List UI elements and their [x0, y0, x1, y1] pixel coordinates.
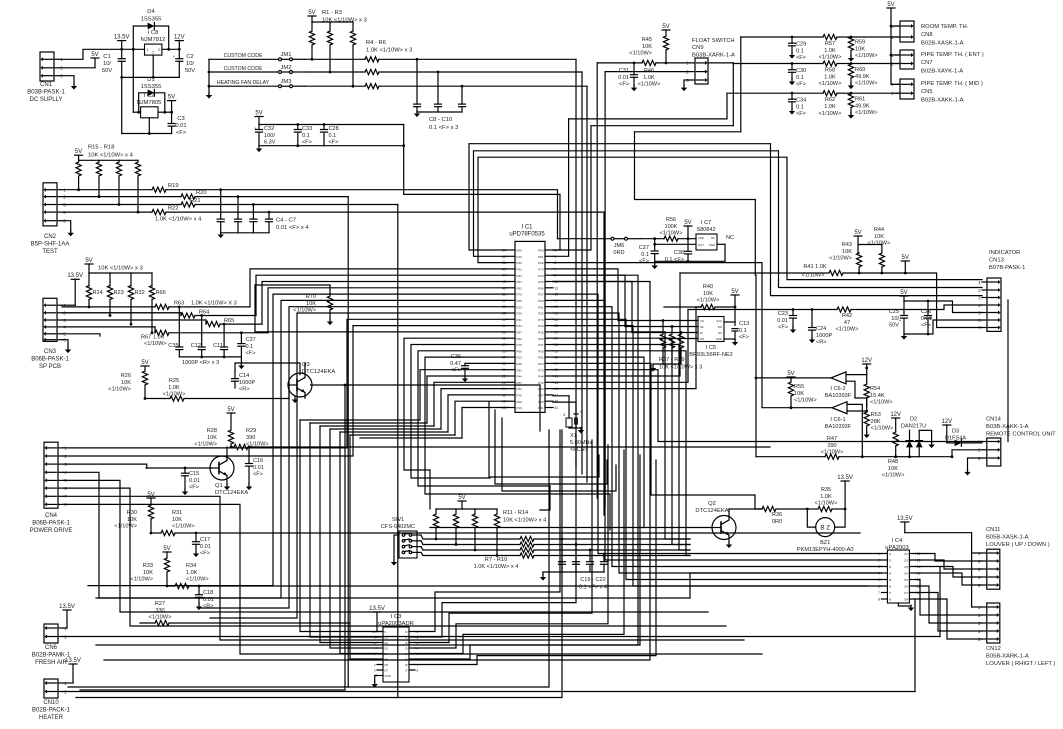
resistor R47 — [756, 456, 825, 458]
resistor R59 — [850, 36, 852, 39]
svg-text:1000P <R> x 3: 1000P <R> x 3 — [182, 360, 219, 366]
svg-text:0.01: 0.01 — [189, 478, 200, 484]
resistor R57 — [792, 36, 823, 38]
wire — [404, 125, 560, 251]
svg-text:P66: P66 — [538, 286, 544, 290]
connector CN13 — [987, 278, 1001, 331]
svg-text:<1/10W>: <1/10W> — [130, 577, 153, 583]
wire CN6 row — [63, 636, 940, 638]
svg-text:C23: C23 — [778, 311, 788, 317]
svg-text:2: 2 — [152, 51, 154, 55]
svg-text:13.5V: 13.5V — [837, 475, 853, 481]
wire — [891, 54, 900, 56]
ground — [964, 472, 970, 476]
wire — [553, 263, 791, 408]
resistor R36 — [762, 506, 776, 511]
svg-text:VDD: VDD — [698, 236, 704, 240]
wire — [618, 320, 698, 322]
svg-text:5V: 5V — [887, 2, 894, 8]
wire — [728, 536, 730, 544]
svg-text:0.1: 0.1 — [329, 133, 337, 139]
svg-text:R25: R25 — [169, 378, 179, 384]
wire — [904, 300, 928, 302]
wire — [462, 408, 507, 439]
resistor R43 — [857, 253, 862, 267]
wire — [330, 429, 377, 648]
svg-text:C29: C29 — [796, 42, 806, 48]
wire — [415, 430, 560, 632]
svg-text:R57: R57 — [825, 41, 835, 47]
svg-text:<1/10W>: <1/10W> — [821, 450, 844, 456]
svg-text:<1/10W>: <1/10W> — [836, 327, 859, 333]
wire — [404, 338, 507, 470]
svg-text:0.1: 0.1 — [796, 48, 804, 54]
svg-text:49.9K: 49.9K — [855, 74, 870, 80]
connector CN14 — [987, 438, 1001, 466]
wire — [417, 546, 421, 548]
svg-text:CN2: CN2 — [44, 234, 57, 240]
wire — [1007, 300, 1009, 442]
svg-text:I C2: I C2 — [144, 93, 155, 99]
resistor R1 — [311, 22, 313, 31]
wire — [250, 269, 507, 307]
wire — [553, 351, 690, 556]
regulator IC8 — [145, 44, 162, 55]
svg-text:P00: P00 — [517, 299, 523, 303]
wire — [62, 221, 71, 231]
wire — [63, 472, 690, 598]
wire — [495, 410, 607, 484]
svg-text:49.9K: 49.9K — [855, 103, 870, 109]
capacitor C24 — [811, 310, 813, 328]
wire — [655, 243, 696, 245]
svg-text:10K: 10K — [306, 301, 316, 307]
wire — [411, 345, 507, 479]
svg-text:5V: 5V — [168, 94, 175, 100]
resistor R39 — [680, 333, 682, 335]
svg-text:D3: D3 — [952, 429, 959, 435]
svg-text:5V: 5V — [227, 407, 234, 413]
wire Q3 collector — [304, 363, 306, 378]
wire — [330, 428, 441, 430]
svg-text:K: K — [385, 630, 387, 634]
wire — [891, 25, 900, 27]
svg-text:NJM7812: NJM7812 — [141, 37, 166, 43]
svg-text:R19: R19 — [168, 183, 179, 189]
svg-text:R24: R24 — [93, 290, 103, 296]
svg-text:<1/10W>: <1/10W> — [802, 273, 825, 279]
resistor R2 — [327, 31, 332, 45]
capacitor C2 — [178, 49, 180, 58]
wire — [208, 59, 210, 94]
resistor R58 — [792, 63, 823, 65]
svg-text:B Z: B Z — [820, 525, 830, 532]
svg-text:5V: 5V — [458, 495, 465, 501]
svg-text:<1/10W>: <1/10W> — [172, 524, 195, 530]
wire — [59, 67, 95, 69]
svg-text:NC: NC — [726, 235, 734, 241]
connector CN7 — [900, 50, 914, 69]
wire — [162, 48, 179, 50]
wire — [972, 551, 982, 553]
capacitor C3 — [171, 112, 173, 123]
svg-text:<1/10W>: <1/10W> — [697, 298, 720, 304]
svg-text:C24: C24 — [816, 326, 826, 332]
svg-text:<F>: <F> — [639, 259, 649, 265]
svg-text:R53: R53 — [871, 412, 881, 418]
svg-text:<F>: <F> — [253, 472, 263, 478]
svg-text:C2: C2 — [186, 54, 193, 60]
svg-text:BA10393F: BA10393F — [825, 424, 852, 430]
resistor R63 — [62, 306, 155, 308]
connector CN10 — [44, 679, 58, 698]
wire — [88, 294, 507, 585]
resistor R15 — [78, 160, 80, 162]
svg-text:Q1: Q1 — [215, 483, 223, 489]
wire — [543, 571, 604, 573]
capacitor C28 — [323, 125, 325, 130]
wire Q1 emitter — [226, 476, 228, 486]
svg-text:B05B-XARK-1-A: B05B-XARK-1-A — [986, 653, 1029, 659]
wire — [851, 63, 900, 65]
transistor Q2 — [712, 516, 736, 540]
resistor R8 — [423, 544, 520, 546]
wire — [375, 676, 377, 683]
resistor R42 — [793, 309, 837, 311]
svg-text:C26: C26 — [921, 309, 931, 315]
ground — [578, 430, 584, 434]
ground — [196, 607, 202, 611]
svg-text:<1/10W>: <1/10W> — [660, 231, 683, 237]
wire — [415, 435, 576, 637]
capacitor C10 — [461, 86, 463, 104]
capacitor C26 — [927, 301, 929, 315]
regulator IC2 — [141, 107, 158, 118]
svg-text:GND: GND — [716, 337, 722, 341]
svg-text:3: 3 — [158, 48, 160, 52]
svg-text:<1/10W>: <1/10W> — [163, 392, 186, 398]
svg-text:INDICATOR: INDICATOR — [989, 250, 1020, 256]
svg-text:C15: C15 — [189, 471, 199, 477]
svg-text:JM3: JM3 — [281, 79, 292, 85]
svg-text:C38: C38 — [674, 250, 684, 256]
wire — [312, 21, 353, 23]
svg-text:R62: R62 — [825, 97, 835, 103]
svg-text:P22: P22 — [538, 312, 544, 316]
svg-text:1SS355: 1SS355 — [141, 16, 162, 22]
svg-text:1000P: 1000P — [239, 380, 255, 386]
wire — [255, 331, 507, 333]
wire — [415, 455, 640, 659]
wire — [915, 586, 981, 623]
svg-text:P66: P66 — [538, 387, 544, 391]
svg-text:P15: P15 — [538, 280, 544, 284]
wire — [259, 145, 324, 147]
svg-text:P66: P66 — [538, 337, 544, 341]
svg-text:I C1: I C1 — [521, 225, 533, 231]
svg-text:1.0K: 1.0K — [820, 494, 832, 500]
wire — [474, 151, 983, 288]
buzzer BZ1 — [816, 518, 835, 537]
svg-text:P37: P37 — [538, 394, 544, 398]
svg-text:R60: R60 — [855, 67, 865, 73]
resistor R41 — [680, 272, 829, 274]
svg-text:P73: P73 — [538, 268, 544, 272]
svg-text:R26: R26 — [121, 373, 131, 379]
svg-text:13.5V: 13.5V — [59, 604, 75, 610]
wire — [553, 273, 680, 376]
svg-text:R67 1.0K: R67 1.0K — [141, 335, 165, 341]
wire — [553, 300, 881, 560]
wire — [324, 145, 404, 147]
svg-text:<1/10W>: <1/10W> — [194, 442, 217, 448]
wire — [429, 470, 431, 509]
svg-text:10K: 10K — [842, 249, 852, 255]
wire — [253, 204, 397, 206]
svg-text:0.01 <F> x 4: 0.01 <F> x 4 — [276, 225, 309, 231]
svg-text:R20: R20 — [196, 190, 207, 196]
ground — [652, 266, 658, 270]
svg-text:5V: 5V — [902, 255, 909, 261]
resistor R48 — [893, 432, 898, 446]
svg-text:12V: 12V — [941, 419, 952, 425]
svg-text:B03B-PASK-1: B03B-PASK-1 — [27, 90, 65, 96]
svg-text:JM2: JM2 — [281, 65, 292, 71]
wire — [320, 426, 377, 643]
svg-text:<1/10W>: <1/10W> — [629, 51, 652, 57]
svg-text:P44: P44 — [538, 375, 544, 379]
opamp IC6-1 — [832, 402, 847, 414]
svg-text:Q3: Q3 — [302, 362, 310, 368]
wire — [310, 422, 427, 424]
ground — [224, 487, 230, 491]
capacitor C9 — [437, 72, 439, 104]
svg-text:C11: C11 — [213, 343, 223, 349]
svg-text:DC SUPLLY: DC SUPLLY — [30, 97, 63, 103]
opamp IC6-2 — [831, 372, 846, 384]
wire — [62, 334, 100, 336]
resistor R13 — [474, 509, 476, 514]
svg-text:R33: R33 — [143, 563, 153, 569]
capacitor C25 — [903, 301, 905, 315]
svg-text:R35: R35 — [821, 487, 831, 493]
resistor R34 — [167, 585, 175, 587]
ic IC3 pins — [377, 631, 383, 633]
svg-text:CN8: CN8 — [921, 32, 933, 38]
svg-text:P57: P57 — [517, 331, 523, 335]
resistor R29 — [231, 446, 234, 448]
svg-text:1.0K: 1.0K — [168, 385, 180, 391]
ground — [681, 88, 687, 92]
svg-text:NC: NC — [718, 331, 722, 335]
svg-text:P26: P26 — [517, 362, 523, 366]
capacitor C33 — [297, 125, 299, 130]
svg-text:P26: P26 — [517, 261, 523, 265]
wire — [625, 326, 698, 328]
svg-text:5V: 5V — [255, 110, 262, 116]
wire — [732, 63, 734, 126]
svg-text:P00: P00 — [538, 299, 544, 303]
wire — [415, 460, 656, 665]
svg-text:10K: 10K — [855, 46, 865, 52]
svg-text:1.0K: 1.0K — [643, 75, 655, 81]
ground — [238, 366, 244, 370]
svg-text:390: 390 — [246, 435, 255, 441]
svg-text:B05B-XASK-1-A: B05B-XASK-1-A — [986, 534, 1029, 540]
svg-text:50V: 50V — [102, 68, 112, 74]
svg-text:OUT: OUT — [698, 243, 704, 247]
wire Q1 collector — [226, 447, 228, 461]
svg-text:P15: P15 — [538, 331, 544, 335]
svg-text:B07B-PASK-1: B07B-PASK-1 — [989, 265, 1025, 271]
svg-text:1: 1 — [580, 410, 582, 414]
wire — [415, 440, 592, 643]
svg-text:390: 390 — [827, 443, 836, 449]
wire — [909, 599, 915, 692]
resistor R3 — [350, 31, 355, 45]
wire — [898, 603, 911, 606]
svg-text:C13: C13 — [739, 321, 749, 327]
svg-text:D4: D4 — [147, 9, 155, 15]
svg-text:0RD: 0RD — [613, 250, 624, 256]
wire — [904, 333, 928, 335]
svg-text:GND: GND — [385, 674, 391, 678]
resistor R28 — [228, 430, 233, 444]
svg-text:P31: P31 — [517, 368, 523, 372]
svg-text:R56: R56 — [666, 217, 676, 223]
wire — [553, 332, 690, 539]
svg-text:<1/10W>: <1/10W> — [819, 81, 842, 87]
svg-text:I C8: I C8 — [148, 30, 159, 36]
wire — [158, 111, 172, 113]
svg-text:ROOM TEMP. TH.: ROOM TEMP. TH. — [921, 24, 969, 30]
svg-text:3: 3 — [563, 413, 565, 417]
svg-text:VCC: VCC — [716, 319, 722, 323]
svg-text:<F>: <F> — [796, 82, 806, 88]
wire — [320, 425, 434, 427]
capacitor C17 — [195, 533, 197, 542]
wire — [851, 36, 900, 38]
wire — [417, 551, 421, 553]
diode D2b — [918, 448, 920, 457]
ground — [391, 562, 397, 566]
svg-text:<FCR>: <FCR> — [570, 447, 588, 453]
capacitor C23 — [792, 310, 794, 316]
resistor R67 — [62, 326, 155, 328]
resistor R30 — [148, 505, 153, 519]
wire — [502, 418, 616, 491]
svg-text:P44: P44 — [538, 274, 544, 278]
wire — [915, 599, 981, 639]
svg-text:P57: P57 — [517, 381, 523, 385]
wire — [63, 504, 762, 654]
capacitor C32 — [258, 125, 260, 130]
svg-text:C8 - C10: C8 - C10 — [429, 117, 452, 123]
svg-text:10K: 10K — [143, 570, 153, 576]
transistor Q1 — [210, 456, 234, 480]
svg-text:<1/10W>: <1/10W> — [149, 615, 172, 621]
svg-text:FRESH AIR: FRESH AIR — [35, 660, 67, 666]
svg-text:<1/10W>: <1/10W> — [870, 400, 893, 406]
svg-text:B02B-PACK-1: B02B-PACK-1 — [32, 708, 71, 714]
resistor R60 — [850, 63, 852, 66]
svg-text:LOUVER ( RHIGT / LEFT ): LOUVER ( RHIGT / LEFT ) — [986, 661, 1055, 667]
svg-text:JM6: JM6 — [614, 243, 625, 249]
wire — [221, 190, 558, 239]
svg-text:7: 7 — [878, 591, 880, 595]
svg-text:D2: D2 — [910, 417, 917, 423]
svg-text:<1/10W>: <1/10W> — [114, 524, 137, 530]
wire — [63, 627, 67, 629]
svg-text:DTC124EKA: DTC124EKA — [695, 508, 728, 514]
wire — [221, 232, 269, 234]
wire — [553, 357, 644, 527]
resistor R53 — [866, 398, 868, 412]
svg-text:R30: R30 — [127, 510, 137, 516]
capacitor C22 — [603, 556, 605, 562]
wire — [76, 430, 562, 698]
ground — [218, 235, 224, 239]
resistor R35 — [807, 508, 818, 510]
svg-text:50V: 50V — [185, 68, 195, 74]
svg-text:1.0K <1/10W> x 4: 1.0K <1/10W> x 4 — [155, 217, 202, 223]
wire — [553, 345, 690, 551]
connector CN6 — [44, 624, 58, 643]
svg-text:R64: R64 — [199, 309, 209, 315]
capacitor C6 — [252, 205, 254, 220]
svg-text:<R>: <R> — [239, 387, 250, 393]
svg-text:10K: 10K — [642, 44, 652, 50]
svg-text:<1/10W>: <1/10W> — [871, 426, 894, 432]
resistor R12 — [455, 509, 457, 514]
svg-text:10K: 10K — [703, 291, 713, 297]
resistor R61 — [850, 92, 852, 94]
ic IC4 pins — [881, 553, 887, 555]
svg-text:13.5V: 13.5V — [65, 658, 81, 664]
wire — [300, 419, 420, 421]
svg-text:D3: D3 — [385, 647, 389, 651]
svg-text:<1/10W>: <1/10W> — [868, 241, 891, 247]
svg-text:0.1: 0.1 — [739, 328, 747, 334]
svg-text:R48: R48 — [888, 459, 898, 465]
ground — [732, 342, 738, 346]
svg-text:1.0K: 1.0K — [824, 48, 836, 54]
svg-text:R70: R70 — [306, 294, 316, 300]
capacitor C18 — [198, 586, 200, 595]
svg-text:P00: P00 — [538, 249, 544, 253]
svg-text:C12: C12 — [191, 343, 201, 349]
wire — [724, 321, 735, 323]
wire — [235, 363, 300, 375]
svg-text:CUSTOM CODE: CUSTOM CODE — [224, 53, 263, 59]
svg-text:12V: 12V — [174, 34, 185, 40]
svg-text:I C4: I C4 — [892, 538, 903, 544]
svg-text:NJM7805: NJM7805 — [137, 100, 162, 106]
connector CN1 — [40, 52, 54, 81]
wire — [740, 37, 742, 132]
ground — [414, 114, 420, 118]
svg-text:5V: 5V — [662, 24, 669, 30]
svg-text:1.0K <1/10W> X 3: 1.0K <1/10W> X 3 — [191, 301, 237, 307]
svg-text:B5P-SHF-1AA: B5P-SHF-1AA — [31, 242, 70, 248]
svg-text:<1/10W>: <1/10W> — [819, 55, 842, 61]
svg-text:O7: O7 — [904, 591, 908, 595]
wire — [596, 63, 598, 498]
svg-text:100K: 100K — [664, 224, 677, 230]
wire — [553, 363, 762, 509]
svg-text:R4 - R6: R4 - R6 — [366, 40, 386, 46]
wire — [915, 554, 981, 562]
